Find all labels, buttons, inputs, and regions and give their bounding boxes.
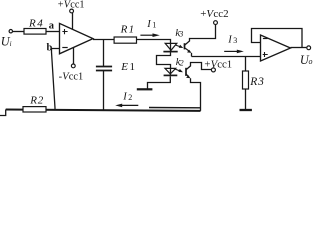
svg-text:i: i: [10, 40, 12, 48]
node b label: [47, 42, 53, 53]
+Vcc2 terminal: [214, 21, 218, 25]
wire input to R4: [13, 31, 24, 33]
light arrow k2: [175, 69, 183, 72]
op-amp U1: [60, 23, 94, 53]
svg-text:1: 1: [130, 61, 136, 73]
current arrow I2: [115, 104, 138, 108]
svg-text:R: R: [29, 94, 37, 106]
k2 emitter wire: [186, 74, 191, 78]
+Vcc1 supply (op-amp U1): [58, 0, 85, 10]
svg-text:2: 2: [128, 93, 132, 102]
op-amp U2: [261, 35, 291, 61]
feedback wire U2: [252, 29, 303, 48]
svg-text:3: 3: [178, 29, 183, 38]
current arrow I1: [140, 33, 159, 37]
svg-text:I: I: [122, 91, 127, 102]
wire op-amp U1 output to R1: [93, 39, 114, 41]
ground (LED chain): [137, 88, 153, 90]
svg-text:3: 3: [257, 76, 264, 88]
wire b: inverting input down to bottom rail: [52, 49, 60, 111]
wire LED k2 cathode to ground: [148, 76, 171, 88]
svg-text:R: R: [249, 76, 257, 88]
capacitor E1: [96, 66, 112, 68]
svg-text:E: E: [120, 61, 128, 73]
svg-text:+: +: [204, 59, 210, 71]
label Ui: [1, 34, 12, 48]
resistor R1: [114, 37, 136, 43]
current label I3: [227, 34, 237, 45]
capacitor branch wire (bottom): [103, 71, 105, 111]
input terminal Ui: [9, 30, 12, 33]
wire k3 emitter to op-amp U2 + input: [192, 56, 261, 58]
svg-text:R: R: [28, 17, 36, 29]
svg-text:I: I: [146, 19, 151, 30]
svg-text:1: 1: [152, 20, 156, 29]
output wire U2: [291, 47, 307, 49]
svg-text:2: 2: [180, 59, 184, 68]
phototransistor of k3: [184, 43, 186, 49]
svg-text:R: R: [120, 23, 128, 35]
capacitor branch wire (top): [103, 40, 105, 67]
svg-text:1: 1: [129, 23, 135, 35]
node a label: [49, 20, 55, 31]
wire R4 to op-amp + input (node a): [46, 31, 60, 33]
k3 collector wire to +Vcc2: [185, 25, 216, 46]
resistor R2: [23, 107, 46, 112]
svg-text:3: 3: [233, 36, 237, 45]
current arrow I3: [224, 50, 244, 54]
svg-text:cc2: cc2: [213, 8, 228, 20]
wire R1 to LED chain: [137, 40, 171, 44]
svg-text:cc1: cc1: [69, 71, 84, 82]
doubled return wire segment: [149, 107, 201, 109]
svg-text:a: a: [49, 20, 55, 31]
current label I2: [122, 91, 132, 102]
k3 emitter wire: [185, 48, 192, 53]
resistor R4: [24, 29, 46, 35]
k2 collector wire to +Vcc1: [186, 63, 211, 70]
current label I1: [146, 19, 156, 30]
-Vcc1 supply (op-amp U1): [73, 47, 75, 64]
svg-text:4: 4: [37, 17, 43, 29]
bottom rail wire: [6, 110, 201, 111]
wire LED k3 cathode zigzag to LED k2 anode: [157, 52, 171, 68]
resistor R3: [245, 57, 247, 72]
wire rail left drop: [0, 110, 6, 116]
output terminal Uo: [307, 46, 311, 50]
optocoupler k2 label: [176, 57, 184, 68]
svg-text:I: I: [227, 34, 232, 45]
phototransistor of k2: [185, 68, 187, 76]
ground (R3): [240, 109, 252, 111]
svg-text:2: 2: [38, 94, 44, 106]
svg-text:cc1: cc1: [217, 59, 232, 71]
+Vcc1 terminal (right): [211, 68, 215, 72]
light arrow k3: [175, 45, 183, 48]
LED of k3: [170, 43, 172, 51]
optocoupler k3 label: [175, 28, 183, 39]
LED of k2: [169, 68, 171, 75]
svg-text:o: o: [309, 57, 313, 66]
